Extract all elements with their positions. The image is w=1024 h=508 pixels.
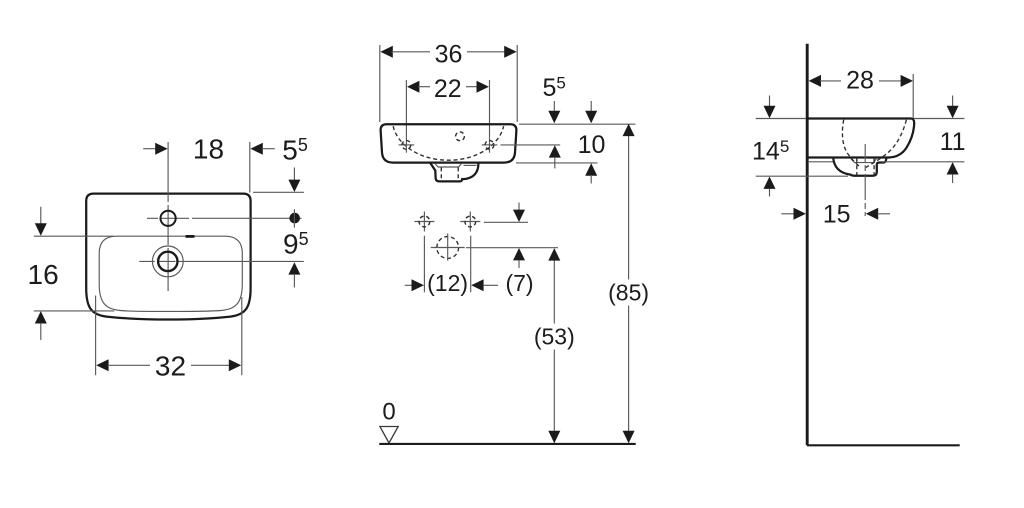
dim 11 down arrow	[952, 96, 954, 108]
basin profile bottom edge	[808, 156, 889, 158]
svg-text:(12): (12)	[427, 270, 468, 296]
faucet hole vertical centerline	[167, 142, 169, 291]
drain centerline	[864, 144, 866, 216]
right supply crosshair	[460, 221, 480, 223]
overflow tick on inner rim	[186, 235, 195, 238]
dim 7 up arrow	[513, 248, 525, 260]
svg-text:11: 11	[940, 128, 966, 156]
dim 5-5 down arrow	[293, 168, 295, 182]
basin profile top edge	[808, 117, 911, 119]
drain crosshair	[431, 247, 465, 249]
svg-text:15: 15	[823, 200, 851, 228]
dim 18 arrow right	[143, 148, 158, 150]
svg-text:0: 0	[382, 399, 395, 426]
dim 14-5 up arrow	[764, 177, 776, 189]
svg-text:(85): (85)	[608, 280, 649, 306]
hidden bowl curve right	[866, 120, 907, 168]
siphon outline	[430, 163, 478, 181]
svg-text:32: 32	[155, 351, 186, 382]
dim 28 extension line	[912, 74, 914, 119]
dim 10 down arrow	[590, 101, 592, 113]
dim 10 up arrow	[585, 163, 597, 175]
drain dashed circle	[437, 237, 459, 259]
dim 7 down arrow	[518, 203, 520, 213]
left fixing hole crosshair	[399, 144, 415, 146]
drain outer circle	[152, 246, 183, 277]
siphon flange trapezoid	[435, 163, 462, 167]
dim 12 extension lines	[423, 236, 425, 293]
hidden bowl curve	[393, 126, 503, 160]
dim 15 arrow left-pointing	[866, 208, 878, 220]
dim 5-5 leader	[253, 191, 304, 193]
dim 11 bottom leader	[882, 161, 965, 163]
svg-text:(53): (53)	[534, 324, 575, 350]
dim 11 top leader	[914, 118, 965, 120]
dim 28	[809, 75, 821, 87]
dim 18 arrow left	[250, 143, 262, 155]
hidden pipe lines	[856, 159, 858, 176]
drain boss	[833, 158, 886, 176]
svg-text:36: 36	[435, 41, 463, 69]
svg-text:28: 28	[846, 67, 874, 95]
siphon inner rim line	[464, 164, 477, 166]
dim 14-5 bottom leader	[756, 175, 848, 177]
svg-text:18: 18	[193, 134, 224, 165]
dot marker at faucet level	[289, 213, 300, 224]
faucet hole circle	[161, 211, 176, 226]
dim 15 arrow right-pointing	[781, 213, 796, 215]
basin profile right edge	[889, 119, 915, 158]
dim 14-5 top leader	[756, 118, 806, 120]
siphon hidden pipe lines	[440, 167, 442, 181]
svg-text:(7): (7)	[505, 270, 533, 296]
dim 16 top arrow	[40, 207, 42, 225]
floor line (middle)	[379, 443, 635, 445]
dim 22 extension lines	[405, 80, 407, 137]
basin bottom leader (right)	[516, 162, 598, 164]
dim 16 bottom arrow	[35, 311, 47, 323]
dim 85 vertical line	[628, 125, 630, 280]
dim 14-5 down arrow	[769, 96, 771, 108]
dim 53 vertical line	[553, 249, 555, 324]
drain ring	[158, 252, 177, 271]
dim 36 extension lines	[379, 45, 381, 122]
svg-text:16: 16	[28, 259, 59, 290]
dim 32 extension lines	[95, 296, 97, 376]
dim 11 up arrow	[947, 162, 959, 174]
hidden bowl curve left	[842, 120, 860, 168]
dim 32 line and arrows	[96, 359, 108, 371]
basin bottom lip line	[808, 161, 833, 163]
dim 18 extension line right	[249, 142, 251, 193]
drain leader right	[466, 247, 558, 249]
dim 12 arrows	[405, 284, 414, 286]
supply leader right	[484, 221, 528, 223]
fixing hole leader	[501, 144, 561, 146]
dim 36	[380, 46, 392, 58]
dim 9-5 up arrow	[288, 262, 300, 274]
drain horizontal centerline / leader	[139, 260, 303, 262]
svg-text:10: 10	[578, 131, 606, 159]
overflow dashed circle	[456, 132, 465, 141]
svg-text:22: 22	[434, 75, 462, 103]
basin outline	[381, 124, 517, 162]
dim 5-5 up arrow (middle)	[549, 145, 561, 157]
dim 22	[407, 81, 419, 93]
right fixing hole crosshair	[482, 144, 498, 146]
drain flange trapezoid	[851, 159, 877, 163]
faucet hole horizontal centerline / leader	[147, 217, 302, 219]
dim 5-5 down arrow (middle)	[553, 101, 555, 113]
basin top leader (right)	[519, 123, 636, 125]
dim 16 bottom leader	[34, 310, 115, 312]
datum triangle	[380, 427, 398, 444]
wall line	[806, 44, 809, 446]
floor line (right)	[807, 444, 960, 446]
basin inner bowl	[99, 236, 242, 311]
left supply crosshair	[414, 221, 434, 223]
dim 16 top leader	[34, 235, 114, 237]
basin outer outline	[86, 194, 250, 320]
